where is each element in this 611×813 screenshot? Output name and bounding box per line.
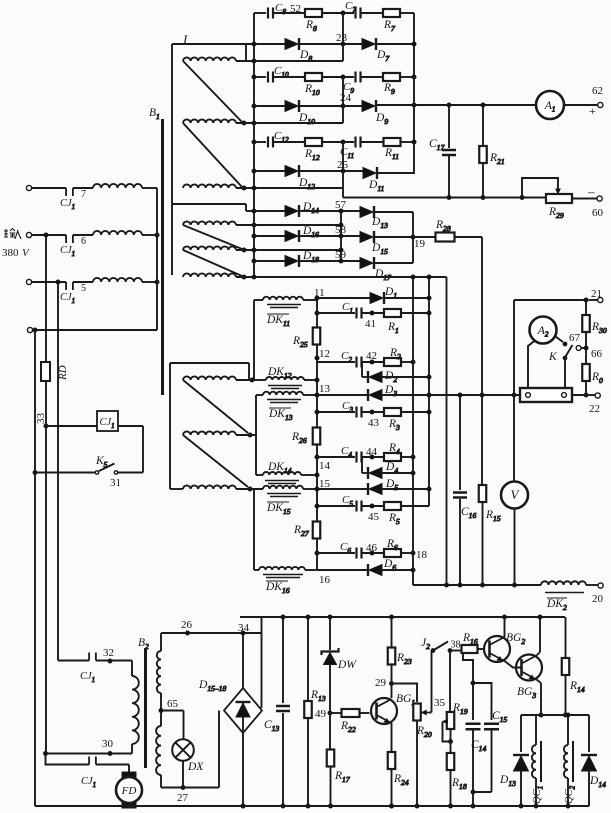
resistor R28 xyxy=(413,219,482,395)
wire xyxy=(361,141,385,143)
wire node 65 xyxy=(159,693,179,726)
winding B1 secondary 1b xyxy=(183,119,246,125)
resistor R2 xyxy=(384,347,401,366)
svg-text:6: 6 xyxy=(81,236,86,247)
diode D10 xyxy=(285,100,315,126)
resistor R11 xyxy=(384,138,401,161)
svg-text:DW: DW xyxy=(337,659,357,671)
svg-text:R14: R14 xyxy=(569,680,585,694)
wire main output row xyxy=(382,393,520,397)
wire xyxy=(161,711,184,741)
wire xyxy=(254,12,266,14)
svg-text:7: 7 xyxy=(81,189,86,200)
wire xyxy=(96,765,129,773)
wire xyxy=(181,761,185,790)
diode D15 xyxy=(360,231,388,256)
svg-text:CJ1: CJ1 xyxy=(80,671,95,684)
wire node 14 xyxy=(315,444,331,521)
svg-text:R4: R4 xyxy=(388,442,400,456)
wire xyxy=(156,188,158,330)
wire xyxy=(374,262,413,264)
contactor contact CJ1 phase B xyxy=(60,235,86,258)
wire xyxy=(401,411,429,413)
winding B2 secondary upper xyxy=(157,651,161,693)
wire xyxy=(322,140,354,144)
node input terminal phase A xyxy=(26,185,66,190)
svg-text:35: 35 xyxy=(434,697,446,709)
potentiometer R20 xyxy=(413,704,432,809)
transformer core B2 xyxy=(138,637,149,768)
svg-text:67: 67 xyxy=(569,332,581,344)
capacitor C11 xyxy=(340,137,361,161)
wire xyxy=(556,337,564,343)
svg-text:C13: C13 xyxy=(264,719,279,733)
diode D13 xyxy=(499,715,529,808)
svg-text:BG2: BG2 xyxy=(506,632,525,646)
wire xyxy=(118,426,143,473)
label winding group I xyxy=(182,32,188,47)
transistor BG3 xyxy=(516,655,542,701)
wire xyxy=(376,43,414,45)
saturable reactor DK12 xyxy=(266,366,304,389)
node terminal 22 xyxy=(589,393,600,415)
wire xyxy=(382,471,415,475)
wire node 41 xyxy=(362,311,385,330)
wire row 60 xyxy=(343,188,546,200)
wire xyxy=(46,754,90,765)
svg-text:C4: C4 xyxy=(341,445,352,459)
diode D11 xyxy=(363,167,384,193)
svg-text:CJ1: CJ1 xyxy=(60,198,75,211)
wire xyxy=(505,661,522,668)
svg-text:D13: D13 xyxy=(499,774,516,788)
wire xyxy=(473,683,492,720)
resistor R17 xyxy=(327,713,351,808)
capacitor C14 xyxy=(466,724,487,792)
winding B1 secondary 1a xyxy=(183,57,236,61)
svg-text:R25: R25 xyxy=(292,335,308,349)
capacitor C6 xyxy=(317,541,362,559)
svg-text:D11: D11 xyxy=(368,179,384,193)
svg-text:DK15: DK15 xyxy=(266,502,291,516)
resistor R5 xyxy=(384,502,401,526)
svg-text:66: 66 xyxy=(591,348,603,360)
svg-text:C7: C7 xyxy=(345,0,356,14)
diode D6 xyxy=(317,558,396,576)
wire xyxy=(241,733,245,808)
wire xyxy=(33,471,95,475)
winding B2 secondary lower xyxy=(156,726,161,775)
shunt FL xyxy=(520,388,572,402)
svg-text:23: 23 xyxy=(336,32,348,44)
svg-text:R11: R11 xyxy=(384,147,399,161)
voltmeter V xyxy=(501,300,528,585)
wire node 12 xyxy=(315,345,330,427)
wire xyxy=(412,13,416,174)
svg-text:R8: R8 xyxy=(305,19,317,33)
wire xyxy=(382,568,415,572)
wire node 42 xyxy=(362,350,385,364)
svg-text:R10: R10 xyxy=(304,83,320,97)
wire xyxy=(478,648,485,650)
wire xyxy=(236,248,341,252)
diode D7 xyxy=(362,38,390,63)
winding B1 secondary 2c xyxy=(183,273,246,279)
svg-text:65: 65 xyxy=(167,698,179,710)
diode D13 xyxy=(360,206,388,230)
resistor R25 xyxy=(292,328,320,350)
thyristor QC2 xyxy=(564,713,577,808)
wire row 27 xyxy=(161,775,219,804)
svg-text:32: 32 xyxy=(103,647,114,659)
wire xyxy=(253,489,255,570)
wire xyxy=(572,381,595,397)
svg-text:R24: R24 xyxy=(393,773,409,787)
svg-text:60: 60 xyxy=(592,207,604,219)
wire xyxy=(360,712,370,714)
fuse RD xyxy=(41,362,69,381)
svg-text:DK2: DK2 xyxy=(546,598,567,612)
diode D5 xyxy=(317,478,398,495)
wire xyxy=(253,300,255,380)
wire node 24 xyxy=(340,77,352,123)
svg-text:R1: R1 xyxy=(387,321,399,335)
wire xyxy=(400,12,414,14)
wire xyxy=(273,76,305,78)
svg-text:12: 12 xyxy=(319,348,330,360)
wire xyxy=(34,330,36,806)
wire xyxy=(471,730,492,809)
wire xyxy=(384,297,429,299)
capacitor C15 xyxy=(484,710,507,729)
svg-text:R26: R26 xyxy=(291,431,307,445)
winding B2 primary xyxy=(132,676,139,744)
wire xyxy=(401,360,415,364)
wire row to A1 xyxy=(376,103,536,107)
winding B1 secondary 1c xyxy=(183,184,246,190)
wire xyxy=(236,122,343,124)
diode D2 xyxy=(362,362,397,384)
wire node 11 xyxy=(314,287,325,327)
wire xyxy=(400,141,414,143)
wire xyxy=(273,12,305,14)
wire xyxy=(254,299,317,301)
wire xyxy=(241,631,245,688)
wire xyxy=(131,744,133,754)
wire xyxy=(170,363,183,489)
svg-text:DK12: DK12 xyxy=(267,366,292,380)
node terminal 21 xyxy=(591,288,603,303)
svg-text:C2: C2 xyxy=(341,350,352,364)
wire rail top xyxy=(240,616,565,618)
wire xyxy=(254,43,285,45)
svg-text:D14: D14 xyxy=(302,201,319,215)
svg-text:29: 29 xyxy=(375,677,387,689)
wire xyxy=(172,204,254,211)
wire xyxy=(236,44,343,61)
svg-text:D8: D8 xyxy=(299,49,312,63)
svg-text:C1: C1 xyxy=(342,301,353,315)
saturable reactor DK15 xyxy=(263,486,303,516)
relay coil CJ1 xyxy=(97,411,118,431)
svg-text:22: 22 xyxy=(589,403,600,415)
wire xyxy=(537,615,543,656)
resistor R15 xyxy=(479,395,501,585)
svg-text:C17: C17 xyxy=(429,138,445,152)
wire xyxy=(299,169,363,173)
svg-text:13: 13 xyxy=(319,383,331,395)
wire xyxy=(254,210,285,212)
svg-text:R9: R9 xyxy=(383,82,395,96)
svg-text:R27: R27 xyxy=(293,524,310,538)
saturable reactor DK16 xyxy=(259,567,305,595)
svg-text:38: 38 xyxy=(451,640,461,651)
resistor R12 xyxy=(304,138,322,162)
wire node 44 xyxy=(362,446,385,459)
svg-text:19: 19 xyxy=(414,238,426,250)
svg-text:42: 42 xyxy=(366,350,377,362)
wire xyxy=(503,615,507,637)
wire xyxy=(273,141,305,143)
svg-text:380: 380 xyxy=(2,247,19,259)
wire xyxy=(183,61,242,122)
wire xyxy=(401,455,415,459)
wire xyxy=(254,260,285,262)
winding B1 secondary 3c xyxy=(183,485,252,491)
svg-text:25: 25 xyxy=(337,159,349,171)
wire xyxy=(218,711,220,788)
wire xyxy=(254,379,317,381)
svg-text:QC2: QC2 xyxy=(564,785,577,804)
wire xyxy=(236,223,341,227)
node terminal 60 xyxy=(587,184,604,219)
wire xyxy=(463,652,475,720)
svg-text:R7: R7 xyxy=(383,19,396,33)
svg-text:V: V xyxy=(22,247,30,259)
svg-text:57: 57 xyxy=(335,199,347,211)
svg-text:J2: J2 xyxy=(421,637,430,651)
svg-text:R21: R21 xyxy=(489,152,505,166)
wire xyxy=(572,198,597,200)
resistor R24 xyxy=(388,723,409,808)
resistor R19 xyxy=(443,651,468,730)
wire row 32 xyxy=(58,283,89,661)
svg-text:D15: D15 xyxy=(371,242,388,256)
wire row 26 xyxy=(161,619,262,651)
wire xyxy=(392,684,418,703)
label input 380V xyxy=(2,229,30,260)
svg-text:41: 41 xyxy=(365,318,376,330)
transformer core B1 xyxy=(149,107,163,395)
node input terminal neutral xyxy=(27,327,157,332)
wire xyxy=(254,76,266,78)
wire xyxy=(142,280,159,284)
svg-text:K: K xyxy=(548,351,558,363)
label 49 xyxy=(315,708,327,720)
svg-text:R29: R29 xyxy=(548,206,564,220)
wire xyxy=(537,680,544,718)
node terminal 62 xyxy=(589,85,603,118)
wire xyxy=(96,661,132,677)
svg-text:20: 20 xyxy=(592,593,604,605)
wire node 25 xyxy=(337,142,349,188)
svg-text:D17: D17 xyxy=(374,268,392,282)
svg-text:D7: D7 xyxy=(376,49,390,63)
diode D1 xyxy=(317,286,397,304)
svg-text:–: – xyxy=(587,184,595,199)
svg-text:R0: R0 xyxy=(591,371,603,385)
wire node 45 xyxy=(362,504,385,523)
winding B1 primary B xyxy=(93,231,142,235)
wire xyxy=(586,584,598,586)
svg-text:R13: R13 xyxy=(310,689,326,703)
svg-text:R17: R17 xyxy=(334,770,351,784)
wire xyxy=(44,424,97,428)
svg-text:R6: R6 xyxy=(386,538,398,552)
contactor contact CJ1 phase A xyxy=(60,188,86,211)
wire xyxy=(299,249,360,263)
svg-text:14: 14 xyxy=(319,460,331,472)
svg-text:CJ1: CJ1 xyxy=(60,292,75,305)
wire xyxy=(377,172,414,174)
wire xyxy=(170,363,249,380)
svg-text:C15: C15 xyxy=(492,710,507,724)
svg-text:62: 62 xyxy=(592,85,603,97)
capacitor C1 xyxy=(317,301,362,319)
wire xyxy=(254,105,285,107)
winding B1 secondary 2b xyxy=(183,246,246,252)
svg-text:31: 31 xyxy=(110,477,121,489)
resistor R10 xyxy=(304,73,322,97)
svg-text:CJ1: CJ1 xyxy=(81,776,96,789)
wire xyxy=(382,376,429,378)
capacitor C13 xyxy=(264,615,290,808)
diode D16 xyxy=(285,225,319,242)
diode D12 xyxy=(285,165,315,191)
svg-text:B2: B2 xyxy=(138,637,149,651)
wire xyxy=(183,380,248,433)
wire node 19 xyxy=(339,211,426,263)
svg-text:B1: B1 xyxy=(149,107,160,121)
wire xyxy=(401,505,429,507)
contactor contact CJ1 aux 30 xyxy=(81,757,96,790)
wire xyxy=(254,569,317,571)
contactor contact CJ1 phase C xyxy=(60,282,86,305)
svg-text:R28: R28 xyxy=(435,219,451,233)
wire xyxy=(382,488,429,490)
svg-text:27: 27 xyxy=(177,792,189,804)
svg-text:DK16: DK16 xyxy=(265,581,290,595)
resistor R18 xyxy=(447,729,467,808)
resistor R7 xyxy=(383,9,400,33)
wire xyxy=(401,312,429,314)
node input terminal phase C xyxy=(26,279,66,284)
svg-text:26: 26 xyxy=(181,619,193,631)
svg-text:R3: R3 xyxy=(388,418,400,432)
svg-text:D13: D13 xyxy=(371,216,388,230)
winding B1 primary A xyxy=(93,184,142,188)
svg-text:18: 18 xyxy=(416,549,428,561)
wire row 21 xyxy=(514,298,598,302)
svg-text:CJ1: CJ1 xyxy=(60,245,75,258)
capacitor C3 xyxy=(317,400,362,418)
wire node 43 xyxy=(362,410,385,429)
resistor R4 xyxy=(384,442,401,461)
saturable reactor DK11 xyxy=(263,297,303,328)
capacitor C16 xyxy=(453,395,476,585)
wire xyxy=(322,11,354,15)
wire xyxy=(183,435,248,487)
wire node 66 xyxy=(576,332,602,364)
svg-text:5: 5 xyxy=(81,283,86,294)
svg-text:R18: R18 xyxy=(451,777,467,791)
resistor R14 xyxy=(562,617,585,717)
wire xyxy=(183,250,242,276)
wire node 18 xyxy=(401,549,428,561)
svg-text:QC1: QC1 xyxy=(532,786,545,804)
svg-text:34: 34 xyxy=(238,622,250,634)
switch K xyxy=(548,332,581,363)
wire xyxy=(361,12,384,14)
capacitor C10 xyxy=(268,65,289,83)
wire xyxy=(564,104,598,106)
resistor R30 xyxy=(582,300,607,335)
svg-text:C3: C3 xyxy=(342,400,353,414)
wire xyxy=(443,722,453,744)
wire xyxy=(446,277,448,585)
wire xyxy=(256,474,317,476)
wire node 16 xyxy=(315,538,331,586)
svg-text:R19: R19 xyxy=(452,702,468,716)
svg-text:DX: DX xyxy=(187,761,204,773)
diode D14 xyxy=(285,201,319,217)
wire xyxy=(142,233,159,237)
wire xyxy=(45,235,47,362)
switch J2 xyxy=(421,637,461,652)
node terminal 20 xyxy=(592,583,604,605)
svg-text:DK14: DK14 xyxy=(267,461,292,475)
wire xyxy=(236,488,263,490)
svg-text:24: 24 xyxy=(340,92,352,104)
capacitor C5 xyxy=(317,494,362,512)
svg-text:21: 21 xyxy=(591,288,602,300)
capacitor C7 xyxy=(345,0,361,19)
svg-text:R23: R23 xyxy=(396,652,412,666)
diode D8 xyxy=(285,38,312,63)
diode D14 xyxy=(581,715,606,806)
svg-text:BG3: BG3 xyxy=(517,686,536,700)
resistor R21 xyxy=(479,105,504,198)
svg-text:R15: R15 xyxy=(485,509,501,523)
svg-text:45: 45 xyxy=(368,511,380,523)
capacitor C12 xyxy=(268,130,289,148)
wire xyxy=(172,43,254,45)
wire xyxy=(45,381,47,754)
wire xyxy=(374,235,415,239)
svg-text:FD: FD xyxy=(121,785,137,797)
wire xyxy=(374,211,413,213)
saturable reactor DK14 xyxy=(263,461,301,484)
zener diode DW xyxy=(322,615,358,715)
svg-text:44: 44 xyxy=(366,446,378,458)
motor FD xyxy=(116,772,142,808)
contactor contact CJ1 aux 32 xyxy=(80,647,114,684)
wire bus 19-18 xyxy=(411,275,415,585)
switch K5 xyxy=(95,455,121,489)
wire xyxy=(564,358,566,388)
resistor R6 xyxy=(384,538,401,557)
svg-text:R16: R16 xyxy=(462,632,478,646)
